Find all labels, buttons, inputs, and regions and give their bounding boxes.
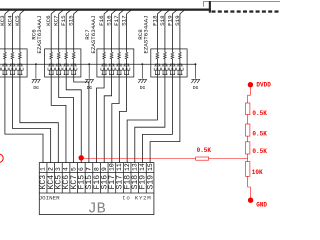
svg-text:10K: 10K: [252, 169, 263, 176]
svg-text:9: 9: [101, 167, 108, 171]
svg-text:8: 8: [93, 167, 100, 171]
svg-text:F16: F16: [98, 15, 105, 26]
svg-text:4: 4: [63, 167, 70, 171]
svg-text:3: 3: [55, 167, 62, 171]
svg-text:S15: S15: [68, 15, 75, 26]
svg-text:12: 12: [124, 163, 131, 171]
svg-text:1: 1: [40, 167, 47, 171]
svg-text:14: 14: [139, 163, 146, 171]
svg-text:2: 2: [47, 167, 54, 171]
svg-text:0.5K: 0.5K: [252, 131, 267, 138]
svg-text:to KY2M: to KY2M: [122, 194, 151, 201]
svg-text:EZAST634AAJ: EZAST634AAJ: [143, 15, 150, 53]
svg-text:KC6: KC6: [45, 15, 52, 26]
svg-text:S17: S17: [121, 15, 128, 26]
svg-text:0.5K: 0.5K: [252, 148, 267, 155]
svg-text:0.5K: 0.5K: [252, 110, 267, 117]
svg-text:S19: S19: [146, 175, 155, 190]
svg-text:EZAST634AAJ: EZAST634AAJ: [36, 15, 43, 53]
svg-text:JB: JB: [88, 201, 106, 218]
svg-text:KC4: KC4: [6, 15, 13, 26]
svg-text:15: 15: [147, 163, 154, 171]
svg-text:F15: F15: [60, 15, 67, 26]
svg-text:11: 11: [116, 163, 123, 171]
svg-text:DG: DG: [140, 85, 146, 91]
svg-text:S19: S19: [174, 15, 181, 26]
svg-text:F18: F18: [151, 15, 158, 26]
svg-text:S18: S18: [159, 15, 166, 26]
svg-text:0.5K: 0.5K: [197, 147, 212, 154]
svg-text:DG: DG: [33, 85, 39, 91]
svg-text:F19: F19: [166, 15, 173, 26]
svg-text:KC5: KC5: [14, 15, 21, 26]
svg-text:7: 7: [86, 167, 93, 171]
svg-text:DVDD: DVDD: [256, 82, 271, 89]
svg-text:5: 5: [70, 167, 77, 171]
svg-text:JOINER: JOINER: [39, 194, 60, 201]
svg-text:EZAST634AAJ: EZAST634AAJ: [90, 15, 97, 53]
svg-text:10: 10: [109, 163, 116, 171]
svg-text:F17: F17: [113, 15, 120, 26]
svg-text:13: 13: [132, 163, 139, 171]
svg-text:GND: GND: [256, 201, 267, 208]
svg-text:S16: S16: [106, 15, 113, 26]
svg-text:DG: DG: [87, 85, 93, 91]
svg-text:DG: DG: [193, 85, 199, 91]
svg-text:KC3: KC3: [0, 15, 6, 26]
svg-text:6: 6: [78, 167, 85, 171]
svg-text:KC7: KC7: [53, 15, 60, 26]
